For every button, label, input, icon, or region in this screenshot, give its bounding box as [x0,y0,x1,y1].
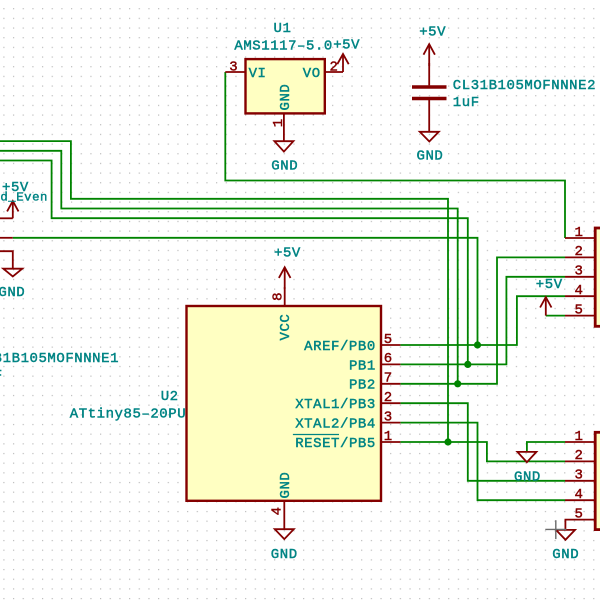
svg-text:2: 2 [575,244,584,260]
svg-text:GND: GND [0,285,25,301]
svg-text:1: 1 [575,429,584,445]
svg-text:VO: VO [303,66,321,82]
bottom connector pin 2 [565,448,595,464]
U2 pin 2 XTAL1/PB3 [381,390,400,406]
svg-text:2: 2 [330,60,339,76]
svg-text:3: 3 [384,409,393,425]
svg-text:4: 4 [575,487,584,503]
svg-text:AREF/PB0: AREF/PB0 [304,339,376,355]
IC U2 ATtiny85–20PU [70,306,381,501]
svg-text:Led_Even: Led_Even [0,191,48,205]
U1 pin 1 GND [271,113,287,141]
svg-text:U1: U1 [274,21,292,37]
svg-text:RESET/PB5: RESET/PB5 [295,436,376,452]
wire XTAL2/PB4 to bottom connector pin 4 [400,423,565,501]
wire net B from left edge to PB2 [0,151,458,384]
top connector pin 5 [565,302,595,318]
junction on PB2 net [454,380,461,387]
svg-text:1: 1 [271,118,287,127]
svg-text:GND: GND [278,472,294,499]
svg-text:5: 5 [575,506,584,522]
svg-text:GND: GND [271,547,298,563]
svg-text:GND: GND [271,158,298,174]
svg-text:+5V: +5V [419,24,446,40]
svg-text:ATtiny85–20PU: ATtiny85–20PU [70,406,186,422]
svg-text:GND: GND [417,149,444,165]
U2 pin 8 VCC [271,287,287,306]
svg-text:6: 6 [384,351,393,367]
U2 pin 3 XTAL2/PB4 [381,409,400,425]
U2 pin 5 AREF/PB0 [381,332,400,348]
svg-text:4: 4 [575,283,584,299]
svg-text:PB1: PB1 [349,358,376,374]
ground at left edge [0,269,25,301]
svg-text:7: 7 [384,371,393,387]
power +5V at U2 VCC [274,246,301,290]
wire net C from left edge to PB1 [0,161,468,365]
U2 pin 1 RESET/PB5 [381,429,400,445]
svg-text:AMS1117–5.0: AMS1117–5.0 [234,38,332,54]
wire +5V to top connector pin 5 [546,315,565,317]
svg-text:2: 2 [575,448,584,464]
U1 pin 3 VI [225,60,245,76]
wire PB2 to top connector pin 2 [400,257,565,383]
svg-text:CL31B105MOFNNNE1: CL31B105MOFNNNE1 [0,351,119,367]
bottom connector pin 4 [565,487,595,503]
power +5V at top connector pin 5 [536,277,563,316]
svg-text:+5V: +5V [333,38,360,54]
svg-text:VCC: VCC [278,314,294,341]
svg-text:5: 5 [575,302,584,318]
svg-text:3: 3 [229,60,238,76]
svg-text:1uF: 1uF [0,368,3,384]
U2 pin 4 GND [270,501,286,529]
svg-text:2: 2 [384,390,393,406]
svg-text:1: 1 [384,429,393,445]
regulator U1 AMS1117-5.0 [234,21,332,114]
junction on RESET/PB5 net [444,438,451,445]
bottom connector pin 5 [565,506,595,529]
svg-text:8: 8 [271,292,287,301]
power +5V at left edge [2,180,29,219]
svg-text:VI: VI [249,66,267,82]
bottom connector pin 3 [565,468,595,484]
ground at bottom connector pin 1 [514,452,541,486]
svg-text:1uF: 1uF [453,95,480,111]
top connector pin 1 [565,225,595,241]
power +5V at U1 VO [333,38,360,72]
wire RESET/PB5 to bottom connector pin 2 [400,442,565,461]
U2 pin 7 PB2 [381,371,400,387]
svg-text:5: 5 [384,332,393,348]
wire XTAL1/PB3 to bottom connector pin 3 [400,403,565,481]
junction on PB1 net [464,361,471,368]
top connector pin 3 [565,264,595,280]
ground at U1 pin 1 [271,141,298,174]
svg-text:XTAL2/PB4: XTAL2/PB4 [295,417,376,433]
wire net D from left pin to AREF/PB0 [13,238,478,345]
left edge pin for net D [0,237,13,239]
svg-text:3: 3 [575,264,584,280]
capacitor C1 CL31B105MOFNNNE1 labels [0,351,119,384]
svg-text:U2: U2 [161,389,179,405]
bottom connector pin 1 [565,429,595,445]
ground at bottom connector pin 5 [552,530,579,563]
top right connector body [595,228,600,326]
wire U1 VI to top connector pin 1 [225,72,565,238]
svg-text:PB2: PB2 [349,378,376,394]
svg-text:+5V: +5V [274,246,301,262]
wire bottom connector pin 1 to ground [527,442,565,452]
left edge pin with +5V [0,217,13,219]
svg-text:GND: GND [552,547,579,563]
U1 pin 2 VO [325,60,343,76]
power +5V at capacitor [419,24,446,66]
bottom right connector body [595,432,600,529]
wire AREF/PB0 to top connector pin 4 [400,296,565,345]
wire PB1 to top connector pin 3 [400,277,565,365]
ground at capacitor [417,132,444,165]
cursor crosshair [545,520,566,539]
svg-text:GND: GND [278,84,294,111]
svg-text:4: 4 [270,506,286,515]
junction on AREF/PB0 net [474,341,481,348]
top connector pin 4 [565,283,595,299]
ground at U2 pin 4 [271,529,298,563]
wire net A from left edge to RESET/PB5 [0,141,448,442]
svg-text:+5V: +5V [536,277,563,293]
capacitor C2 CL31B105MOFNNNE2 [412,63,596,131]
svg-text:GND: GND [514,469,541,485]
top connector pin 2 [565,244,595,260]
svg-text:3: 3 [575,468,584,484]
left edge pin with ground [0,251,13,268]
svg-text:1: 1 [575,225,584,241]
svg-text:XTAL1/PB3: XTAL1/PB3 [295,397,376,413]
svg-text:CL31B105MOFNNNE2: CL31B105MOFNNNE2 [453,78,596,94]
U2 pin 6 PB1 [381,351,400,367]
